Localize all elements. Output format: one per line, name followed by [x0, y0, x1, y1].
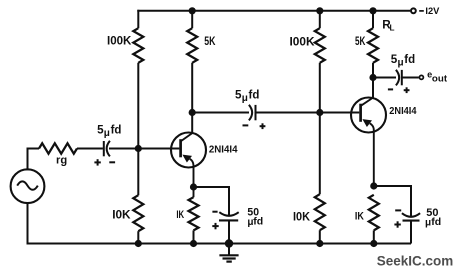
svg-text:I00K: I00K: [107, 34, 131, 48]
svg-text:fd: fd: [249, 90, 260, 102]
svg-text:L: L: [390, 24, 395, 33]
svg-text:out: out: [432, 74, 447, 84]
svg-text:fd: fd: [111, 125, 122, 137]
svg-text:rg: rg: [56, 154, 67, 166]
svg-text:IK: IK: [176, 209, 184, 221]
svg-text:5K: 5K: [355, 34, 366, 48]
svg-text:I0K: I0K: [112, 208, 130, 222]
svg-text:fd: fd: [253, 216, 263, 228]
svg-text:μ: μ: [104, 128, 110, 139]
svg-text:2NI4I4: 2NI4I4: [209, 144, 238, 155]
svg-text:fd: fd: [431, 216, 441, 228]
svg-text:fd: fd: [404, 54, 415, 66]
svg-text:μ: μ: [398, 58, 404, 69]
svg-text:I2V: I2V: [425, 6, 440, 17]
svg-text:μ: μ: [242, 93, 248, 104]
svg-text:μ: μ: [425, 218, 431, 229]
svg-text:2NI4I4: 2NI4I4: [389, 106, 417, 117]
svg-text:IK: IK: [355, 211, 364, 223]
svg-text:I0K: I0K: [293, 209, 310, 223]
svg-text:I00K: I00K: [290, 35, 315, 49]
svg-text:SeekIC.com: SeekIC.com: [377, 254, 453, 270]
svg-text:5K: 5K: [204, 34, 215, 48]
